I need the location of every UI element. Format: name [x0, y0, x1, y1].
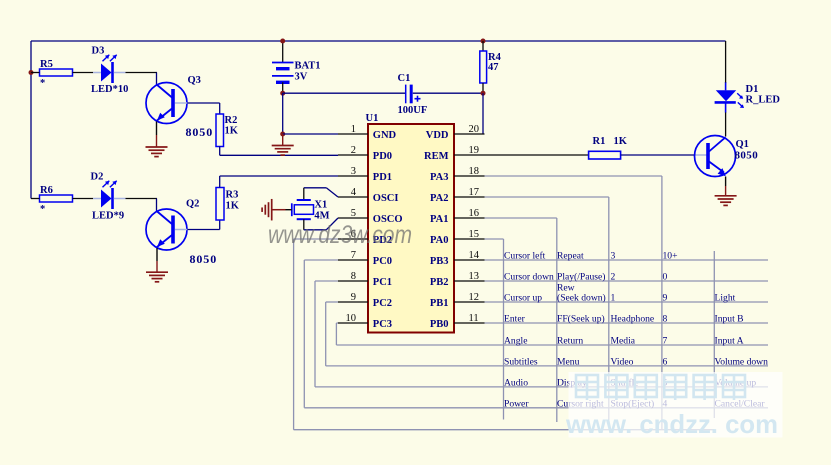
svg-text:2: 2	[611, 272, 616, 283]
wire Q1 emitter to ground	[725, 177, 727, 196]
wire left vertical rail	[30, 41, 32, 199]
svg-text:PA0: PA0	[430, 235, 448, 246]
svg-text:PB1: PB1	[430, 298, 449, 309]
pin 5 OSCO stub	[338, 217, 368, 219]
pin 18 number	[469, 166, 480, 177]
svg-text:Play(/Pause): Play(/Pause)	[557, 272, 606, 283]
LED D3	[93, 55, 126, 83]
svg-text:www.dz3w.com: www.dz3w.com	[268, 221, 412, 249]
resistor R5	[31, 69, 93, 76]
label D1	[746, 84, 759, 95]
label R4	[488, 52, 502, 63]
svg-text:Cursor down: Cursor down	[504, 272, 554, 283]
svg-text:Input B: Input B	[715, 314, 744, 325]
wire R1 to Q1 base	[621, 154, 707, 156]
resistor R6	[31, 195, 93, 202]
svg-text:OSCI: OSCI	[373, 193, 399, 204]
svg-text:1: 1	[611, 293, 616, 304]
wire Q2 emitter to ground	[156, 248, 158, 272]
svg-text:5: 5	[351, 208, 356, 219]
wire pin6 matrix loop	[294, 239, 715, 430]
pin 19 name REM	[424, 151, 449, 162]
wire D2 to Q2	[126, 199, 158, 211]
svg-text:3: 3	[351, 166, 356, 177]
wire R4 to node	[482, 83, 484, 93]
label R1	[593, 136, 606, 147]
label R6 value *	[40, 204, 45, 215]
svg-text:PC1: PC1	[373, 277, 392, 288]
svg-text:PA3: PA3	[430, 172, 448, 183]
ground below Q2	[146, 272, 168, 282]
table row y387 labels	[504, 378, 756, 389]
svg-text:R3: R3	[226, 190, 239, 201]
wire D3 to Q3	[126, 73, 158, 85]
pin 4 name OSCI	[373, 193, 399, 204]
svg-text:13: 13	[469, 271, 480, 282]
svg-text:Cursor up: Cursor up	[504, 293, 542, 304]
svg-text:4M: 4M	[314, 211, 329, 222]
svg-text:15: 15	[469, 229, 480, 240]
pin 1 GND stub	[338, 133, 368, 135]
wire rail to BAT1	[282, 41, 284, 63]
svg-text:Q3: Q3	[188, 75, 201, 86]
pin 6 number	[351, 229, 356, 240]
svg-text:PD0: PD0	[373, 151, 392, 162]
wire Q1 collector to D1	[725, 112, 727, 137]
resistor R1	[589, 151, 621, 159]
svg-text:12: 12	[469, 292, 480, 303]
pin 19 REM stub	[454, 154, 485, 156]
svg-text:2: 2	[351, 145, 356, 156]
svg-text:8050: 8050	[186, 125, 214, 139]
pin 5 number	[351, 208, 356, 219]
svg-text:*: *	[40, 78, 45, 89]
wire Q3 emitter to ground	[156, 122, 158, 148]
svg-text:Enter: Enter	[504, 314, 526, 325]
svg-text:R5: R5	[40, 59, 53, 70]
wire pin1 GND	[283, 133, 338, 135]
table row y323 labels	[504, 314, 744, 325]
svg-text:www. cndzz. com: www. cndzz. com	[565, 409, 778, 439]
pin 16 PA1 stub	[454, 217, 485, 219]
label D1 R_LED	[746, 95, 781, 106]
svg-text:LED*10: LED*10	[91, 84, 128, 95]
svg-text:9: 9	[351, 292, 356, 303]
pin 16 number	[469, 208, 480, 219]
svg-text:7: 7	[351, 250, 356, 261]
pin 13 PB2 stub	[454, 280, 485, 282]
pin 1 name GND	[373, 130, 397, 141]
svg-text:PA1: PA1	[430, 214, 448, 225]
svg-text:VDD: VDD	[426, 130, 449, 141]
svg-text:Menu: Menu	[557, 357, 580, 368]
wire pin7 matrix loop	[304, 260, 768, 408]
IC U1 body	[368, 124, 454, 333]
label R3 1K	[226, 201, 240, 212]
wire pin8 matrix loop	[315, 281, 768, 387]
svg-text:18: 18	[469, 166, 480, 177]
pin 4 number	[351, 187, 357, 198]
label BAT1 3V	[295, 72, 308, 83]
svg-text:Audio: Audio	[504, 378, 528, 389]
svg-text:R_LED: R_LED	[746, 95, 781, 106]
pin 12 number	[469, 292, 480, 303]
wire C1 to R4 node	[413, 92, 483, 94]
svg-text:Angle: Angle	[504, 336, 527, 347]
wire D1 to rail	[725, 41, 727, 83]
svg-text:D2: D2	[91, 172, 104, 183]
pin 15 number	[469, 229, 480, 240]
pin 4 OSCI stub	[338, 196, 368, 198]
label R5 value *	[40, 78, 45, 89]
label R2	[225, 115, 238, 126]
svg-text:20: 20	[469, 124, 480, 135]
ground below Q3	[146, 147, 168, 157]
LED D2	[93, 181, 126, 209]
pin 20 name VDD	[426, 130, 449, 141]
resistor R4	[480, 51, 487, 83]
wire crystal left electrode to ground	[272, 209, 292, 211]
svg-text:Input A: Input A	[715, 336, 744, 347]
svg-text:Video: Video	[611, 357, 634, 368]
svg-text:LED*9: LED*9	[92, 211, 124, 222]
resistor R3	[216, 188, 224, 221]
svg-text:R1: R1	[593, 136, 606, 147]
pin 3 name PD1	[373, 172, 392, 183]
watermark www.dz3w.com	[268, 221, 412, 249]
pin 7 number	[351, 250, 356, 261]
wire R2 to pin2 PD0	[220, 147, 338, 156]
label LED*10	[91, 84, 128, 95]
svg-text:PC3: PC3	[373, 319, 392, 330]
svg-text:16: 16	[469, 208, 480, 219]
pin 17 PA2 stub	[454, 196, 485, 198]
svg-text:(Seek down): (Seek down)	[557, 293, 606, 304]
pin 8 name PC1	[373, 277, 392, 288]
svg-text:8050: 8050	[190, 252, 218, 266]
pin 19 number	[469, 145, 480, 156]
pin 11 PB0 stub	[454, 322, 485, 324]
label R5	[40, 59, 53, 70]
svg-text:Q1: Q1	[736, 139, 749, 150]
wire pin19 REM to R1	[485, 154, 589, 156]
label Q3	[188, 75, 201, 86]
pin 3 number	[351, 166, 356, 177]
ground left of crystal X1	[262, 199, 272, 221]
wire row 2 from pin 13	[485, 280, 769, 282]
wire BAT1 to node	[282, 82, 284, 93]
pin 12 PB1 stub	[454, 301, 485, 303]
svg-text:FF(Seek up): FF(Seek up)	[557, 314, 605, 325]
label R3	[226, 190, 239, 201]
svg-text:C1: C1	[398, 73, 411, 84]
wire node to pin20 VDD	[482, 93, 484, 134]
pin 10 PC3 stub	[338, 322, 368, 324]
svg-text:17: 17	[469, 187, 480, 198]
pin 10 name PC3	[373, 319, 392, 330]
pin 1 number	[351, 124, 356, 135]
node junction R4 / C1 / pin20	[481, 91, 486, 96]
svg-text:8050: 8050	[735, 150, 759, 162]
svg-text:PC0: PC0	[373, 256, 392, 267]
wire pin16 matrix column	[485, 218, 557, 422]
pin 17 name PA2	[430, 193, 448, 204]
svg-text:1K: 1K	[226, 201, 240, 212]
wire row 4 from pin 11	[485, 322, 769, 324]
pin 20 number	[469, 124, 480, 135]
wire pin4 OSCI to crystal	[304, 188, 338, 200]
wire pin9 matrix loop	[326, 302, 768, 366]
svg-text:19: 19	[469, 145, 480, 156]
pin 14 number	[469, 250, 480, 261]
svg-text:X1: X1	[314, 200, 327, 211]
svg-text:6: 6	[663, 357, 668, 368]
label R6	[40, 185, 53, 196]
label R2 1K	[225, 126, 239, 137]
wire Q3 base to R2	[175, 103, 220, 114]
pin 6 name PD2	[373, 235, 392, 246]
pin 3 PD1 stub	[338, 175, 368, 177]
svg-text:3: 3	[611, 251, 616, 262]
svg-text:Repeat: Repeat	[557, 251, 584, 262]
node junction rail / R4	[481, 39, 486, 44]
svg-text:3V: 3V	[295, 72, 308, 83]
pin 6 PD2 stub	[338, 238, 368, 240]
wire node to ground symbol	[282, 134, 284, 146]
svg-text:REM: REM	[424, 151, 449, 162]
label X1 4M	[314, 211, 329, 222]
label U1	[366, 113, 379, 124]
svg-text:4: 4	[351, 187, 357, 198]
svg-text:PB2: PB2	[430, 277, 449, 288]
svg-text:47: 47	[488, 62, 499, 73]
svg-text:D3: D3	[92, 46, 105, 57]
svg-text:Q2: Q2	[186, 199, 199, 210]
svg-text:Return: Return	[557, 336, 583, 347]
svg-text:R2: R2	[225, 115, 238, 126]
label R4 47	[488, 62, 499, 73]
watermark www.cndzz.com	[565, 409, 778, 439]
svg-text:GND: GND	[373, 130, 397, 141]
wire pin18 matrix column	[485, 176, 662, 430]
pin 16 name PA1	[430, 214, 448, 225]
wire pin10 matrix loop	[336, 323, 768, 345]
table row y345 labels	[504, 336, 744, 347]
pin 20 VDD stub	[454, 133, 485, 135]
watermark box bottom right	[569, 372, 783, 438]
svg-text:BAT1: BAT1	[295, 61, 321, 72]
pin 18 name PA3	[430, 172, 448, 183]
svg-text:Headphone: Headphone	[611, 314, 655, 325]
pin 12 name PB1	[430, 298, 449, 309]
pin 8 number	[351, 271, 356, 282]
label X1	[314, 200, 327, 211]
svg-text:1K: 1K	[614, 136, 628, 147]
svg-text:D1: D1	[746, 84, 759, 95]
label LED*9	[92, 211, 124, 222]
label R1 1K	[614, 136, 628, 147]
table row y281 labels	[504, 272, 668, 283]
wire pin17 matrix column	[485, 197, 609, 420]
label C1	[398, 73, 411, 84]
svg-text:Cursor left: Cursor left	[504, 251, 546, 262]
svg-text:7: 7	[663, 336, 668, 347]
svg-text:11: 11	[469, 313, 479, 324]
label Q2 8050	[190, 252, 218, 266]
svg-text:0: 0	[663, 272, 668, 283]
pin 9 number	[351, 292, 356, 303]
wire crystal to pin5 OSCO	[304, 218, 338, 230]
label D3	[92, 46, 105, 57]
label Q3 8050	[186, 125, 214, 139]
pin 15 name PA0	[430, 235, 448, 246]
pin 14 name PB3	[430, 256, 449, 267]
node junction left rail / R5	[29, 70, 34, 75]
pin 11 name PB0	[430, 319, 449, 330]
node junction rail / BAT1	[280, 39, 285, 44]
table row y366 labels	[504, 357, 768, 368]
wire top power rail	[31, 40, 726, 42]
pin 2 number	[351, 145, 356, 156]
pin 10 number	[346, 313, 357, 324]
svg-text:Power: Power	[504, 399, 529, 410]
svg-text:U1: U1	[366, 113, 379, 124]
label C1 100UF	[398, 105, 428, 116]
wire matrix column 5	[713, 251, 715, 418]
table row y302 labels	[504, 283, 736, 304]
svg-text:*: *	[40, 204, 45, 215]
wire node to ground node	[282, 93, 284, 134]
label Q1	[736, 139, 749, 150]
label D2	[91, 172, 104, 183]
svg-text:14: 14	[469, 250, 480, 261]
pin 7 name PC0	[373, 256, 392, 267]
pin 14 PB3 stub	[454, 259, 485, 261]
svg-text:R6: R6	[40, 185, 53, 196]
svg-text:PC2: PC2	[373, 298, 392, 309]
wire rail to R4	[482, 41, 484, 51]
label BAT1	[295, 61, 321, 72]
watermark chinese text	[576, 375, 745, 400]
pin 8 PC1 stub	[338, 280, 368, 282]
svg-text:1: 1	[351, 124, 356, 135]
svg-text:1K: 1K	[225, 126, 239, 137]
LED D1	[715, 82, 744, 113]
svg-text:8: 8	[351, 271, 356, 282]
pin 9 name PC2	[373, 298, 392, 309]
pin 11 number	[469, 313, 479, 324]
svg-text:PD1: PD1	[373, 172, 392, 183]
transistor Q3	[146, 83, 187, 124]
wire row 3 from pin 12	[485, 301, 769, 303]
crystal X1	[292, 200, 314, 219]
wire Q2 base to R3	[175, 220, 220, 230]
ground below Q1	[715, 196, 737, 206]
svg-text:9: 9	[663, 293, 668, 304]
svg-text:PA2: PA2	[430, 193, 448, 204]
resistor R2	[216, 114, 224, 147]
transistor Q2	[146, 209, 187, 250]
svg-text:Subtitles: Subtitles	[504, 357, 538, 368]
pin 9 PC2 stub	[338, 301, 368, 303]
battery BAT1	[272, 63, 294, 83]
svg-text:PB3: PB3	[430, 256, 449, 267]
svg-text:PB0: PB0	[430, 319, 449, 330]
pin 5 name OSCO	[373, 214, 403, 225]
svg-text:10+: 10+	[663, 251, 678, 262]
pin 13 name PB2	[430, 277, 449, 288]
svg-text:100UF: 100UF	[398, 105, 428, 116]
pin 7 PC0 stub	[338, 259, 368, 261]
label Q2	[186, 199, 199, 210]
pin 15 PA0 stub	[454, 238, 485, 240]
svg-text:Light: Light	[715, 293, 736, 304]
label Q1 8050	[735, 150, 759, 162]
node junction ground / pin1	[280, 132, 285, 137]
node junction BAT1- / C1 wire	[280, 91, 285, 96]
svg-text:8: 8	[663, 314, 668, 325]
wire pin15 matrix column	[485, 239, 504, 420]
capacitor C1	[406, 85, 421, 104]
wire R3 to pin3 PD1	[220, 176, 338, 188]
svg-text:Media: Media	[611, 336, 636, 347]
table row y408 labels	[504, 399, 765, 410]
transistor Q1	[695, 136, 736, 177]
pin 13 number	[469, 271, 480, 282]
table row y260 labels	[504, 251, 678, 262]
ground below BAT1	[272, 146, 294, 156]
pin 2 name PD0	[373, 151, 392, 162]
wire node to C1	[283, 92, 405, 94]
svg-text:Volume down: Volume down	[715, 357, 769, 368]
pin 2 PD0 stub	[338, 154, 368, 156]
wire row 1 from pin 14	[485, 259, 769, 261]
pin 17 number	[469, 187, 480, 198]
pin 18 PA3 stub	[454, 175, 485, 177]
svg-text:10: 10	[346, 313, 357, 324]
